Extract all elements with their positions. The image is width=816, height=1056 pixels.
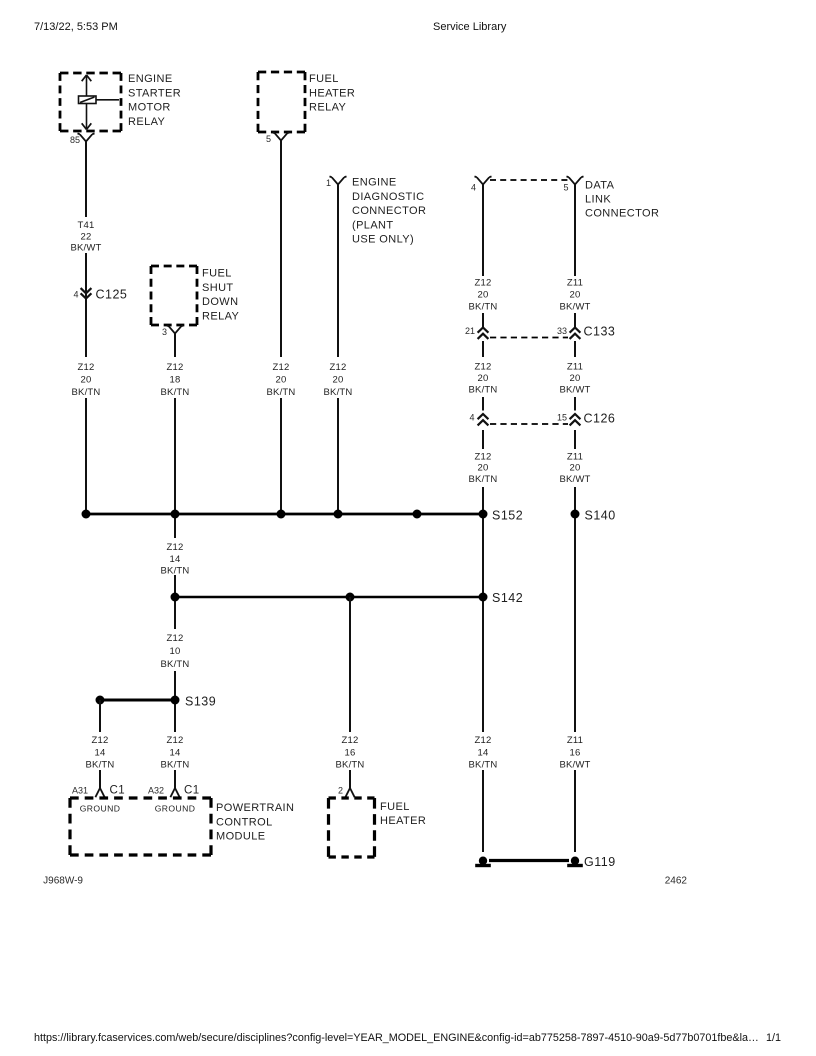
svg-text:2: 2 — [338, 786, 343, 796]
svg-text:BK/WT: BK/WT — [70, 243, 101, 254]
svg-text:Z12: Z12 — [167, 735, 184, 746]
svg-text:S139: S139 — [185, 695, 216, 709]
svg-text:https://library.fcaservices.co: https://library.fcaservices.com/web/secu… — [34, 1032, 759, 1044]
ground bus G119 — [489, 859, 569, 862]
svg-text:C1: C1 — [184, 785, 200, 797]
svg-text:SHUT: SHUT — [202, 282, 234, 294]
svg-text:CONNECTOR: CONNECTOR — [352, 205, 426, 217]
svg-text:S142: S142 — [492, 591, 523, 605]
connector terminal at pin 85 — [78, 133, 95, 141]
svg-text:Z12: Z12 — [475, 735, 492, 746]
wire label Z12 18 BK/TN (wire 2) — [161, 362, 190, 398]
svg-text:(PLANT: (PLANT — [352, 219, 394, 231]
svg-text:MOTOR: MOTOR — [128, 102, 171, 114]
svg-text:POWERTRAIN: POWERTRAIN — [216, 802, 294, 814]
svg-text:C133: C133 — [584, 325, 616, 339]
svg-text:Z12: Z12 — [92, 735, 109, 746]
svg-text:5: 5 — [563, 183, 568, 193]
svg-text:ENGINE: ENGINE — [128, 73, 173, 85]
svg-text:14: 14 — [170, 748, 181, 759]
svg-text:G119: G119 — [584, 855, 616, 869]
wire label Z12 14 BK/TN (to G119 left) — [469, 735, 498, 771]
svg-text:Service Library: Service Library — [433, 21, 507, 33]
svg-text:BK/TN: BK/TN — [469, 760, 498, 771]
svg-text:20: 20 — [333, 375, 344, 386]
svg-text:RELAY: RELAY — [202, 310, 240, 322]
junction dot wire3/S152 — [277, 510, 286, 519]
svg-text:18: 18 — [170, 375, 181, 386]
dashed link C133 — [490, 337, 568, 339]
svg-text:4: 4 — [469, 413, 474, 423]
wire label Z12 20 BK/TN (wire 4) — [324, 362, 353, 398]
wire Z12 from S139 to PCM A31 — [99, 700, 101, 788]
svg-text:BK/WT: BK/WT — [559, 474, 590, 485]
svg-text:Z11: Z11 — [567, 452, 583, 463]
svg-text:85: 85 — [70, 135, 80, 145]
svg-text:STARTER: STARTER — [128, 87, 181, 99]
svg-text:3: 3 — [162, 327, 167, 337]
svg-text:14: 14 — [170, 554, 181, 565]
svg-text:5: 5 — [266, 134, 271, 144]
svg-text:BK/TN: BK/TN — [469, 302, 498, 313]
relay box: fuel shut down relay — [151, 266, 197, 325]
svg-text:Z12: Z12 — [167, 362, 184, 373]
svg-text:ENGINE: ENGINE — [352, 177, 397, 189]
splice bus S142 — [175, 596, 483, 599]
wire label Z12 20 BK/TN (below C133 left) — [469, 362, 498, 396]
svg-text:C126: C126 — [584, 412, 616, 426]
svg-text:BK/TN: BK/TN — [469, 474, 498, 485]
wire label Z12 20 BK/TN (below C126 left) — [469, 452, 498, 486]
svg-text:HEATER: HEATER — [309, 87, 355, 99]
svg-text:14: 14 — [478, 748, 489, 759]
svg-text:Z12: Z12 — [342, 735, 359, 746]
svg-text:GROUND: GROUND — [80, 804, 121, 814]
svg-text:33: 33 — [557, 326, 567, 336]
svg-text:BK/TN: BK/TN — [161, 566, 190, 577]
junction dot S139 left — [96, 696, 105, 705]
label FUEL HEATER — [380, 801, 426, 827]
junction dot wire1/S152 — [82, 510, 91, 519]
svg-text:Z12: Z12 — [475, 278, 492, 289]
svg-text:20: 20 — [478, 373, 489, 384]
svg-text:Z11: Z11 — [567, 735, 583, 746]
svg-text:Z11: Z11 — [567, 278, 583, 289]
junction dot S142 left — [171, 593, 180, 602]
wire label Z11 16 BK/WT (to G119 right) — [559, 735, 590, 771]
wire T41 / Z12 from engine starter motor relay pin 85 to S152 — [85, 142, 87, 515]
svg-text:C1: C1 — [110, 785, 126, 797]
svg-text:BK/TN: BK/TN — [336, 760, 365, 771]
wire label Z12 20 BK/TN (DLC left) — [469, 278, 498, 313]
svg-text:BK/TN: BK/TN — [161, 659, 190, 670]
svg-text:BK/TN: BK/TN — [469, 385, 498, 396]
svg-text:S152: S152 — [492, 509, 523, 523]
label ENGINE STARTER MOTOR RELAY — [128, 73, 181, 128]
svg-text:Z12: Z12 — [475, 362, 492, 373]
relay box: engine starter motor relay — [60, 73, 121, 131]
svg-text:1: 1 — [326, 178, 331, 188]
wire label Z12 20 BK/TN (wire 3) — [267, 362, 296, 398]
svg-text:DATA: DATA — [585, 180, 615, 192]
svg-text:LINK: LINK — [585, 194, 611, 206]
wire label Z11 20 BK/WT (DLC right) — [559, 278, 590, 313]
wire Z12 from fuel shut down relay pin 3 to S152/S142/S139 and PCM A32 — [174, 334, 176, 789]
svg-text:A31: A31 — [72, 786, 88, 796]
svg-text:BK/WT: BK/WT — [559, 385, 590, 396]
component box: fuel heater — [329, 798, 375, 857]
connector terminal data link connector pin 4 — [475, 176, 492, 184]
terminal caret PCM A31 — [95, 788, 104, 797]
relay coil symbol (engine starter motor relay) — [79, 75, 120, 130]
svg-text:14: 14 — [95, 748, 106, 759]
wire label Z11 20 BK/WT (below C126 right) — [559, 452, 590, 486]
wire Z12 from fuel heater relay pin 5 to S152 — [280, 141, 282, 515]
terminal caret fuel heater pin 2 — [345, 788, 354, 797]
svg-text:Z12: Z12 — [167, 542, 184, 553]
label DATA LINK CONNECTOR — [585, 180, 659, 220]
svg-text:10: 10 — [170, 646, 181, 657]
junction dot wire4/S152 — [334, 510, 343, 519]
svg-text:FUEL: FUEL — [309, 73, 339, 85]
wire Z12 from S142 to fuel heater pin 2 — [349, 597, 351, 788]
svg-text:GROUND: GROUND — [155, 804, 196, 814]
svg-text:20: 20 — [478, 290, 489, 301]
in-line connector C126 right half — [570, 414, 581, 425]
svg-text:J968W-9: J968W-9 — [43, 876, 83, 887]
terminal caret PCM A32 — [170, 788, 179, 797]
splice bus S139 — [100, 699, 175, 702]
wire Z12 from DLC pin 4 through C133/C126 to S152, S142, G119 — [482, 185, 484, 853]
svg-text:Z11: Z11 — [567, 362, 583, 373]
wire label Z12 14 BK/TN (PCM A31) — [86, 735, 115, 771]
junction dot mid S152 — [413, 510, 422, 519]
label FUEL HEATER RELAY — [309, 73, 355, 114]
svg-text:BK/WT: BK/WT — [559, 760, 590, 771]
svg-text:BK/TN: BK/TN — [324, 387, 353, 398]
svg-text:DOWN: DOWN — [202, 296, 238, 308]
svg-text:4: 4 — [471, 183, 476, 193]
svg-text:USE ONLY): USE ONLY) — [352, 234, 414, 246]
label ENGINE DIAGNOSTIC CONNECTOR (PLANT USE ONLY) — [352, 177, 426, 246]
svg-text:CONNECTOR: CONNECTOR — [585, 208, 659, 220]
svg-text:20: 20 — [570, 290, 581, 301]
svg-text:16: 16 — [570, 748, 581, 759]
svg-text:A32: A32 — [148, 786, 164, 796]
svg-text:15: 15 — [557, 413, 567, 423]
svg-text:20: 20 — [570, 463, 581, 474]
in-line connector C125 — [81, 288, 92, 298]
connector terminal at fuel shut down relay pin 3 — [167, 325, 184, 333]
svg-text:BK/TN: BK/TN — [267, 387, 296, 398]
svg-text:20: 20 — [478, 463, 489, 474]
svg-text:BK/TN: BK/TN — [86, 760, 115, 771]
dashed link C126 — [490, 423, 568, 425]
svg-text:BK/WT: BK/WT — [559, 302, 590, 313]
svg-text:CONTROL: CONTROL — [216, 816, 273, 828]
svg-text:RELAY: RELAY — [309, 102, 347, 114]
wire label Z12 20 BK/TN (wire 1) — [72, 362, 101, 398]
svg-text:1/1: 1/1 — [766, 1032, 781, 1044]
svg-text:BK/TN: BK/TN — [161, 760, 190, 771]
svg-text:Z12: Z12 — [167, 633, 184, 644]
svg-text:S140: S140 — [585, 509, 616, 523]
wire label T41 22 BK/WT — [70, 220, 101, 254]
svg-text:C125: C125 — [96, 288, 128, 302]
junction dot S142 right — [479, 593, 488, 602]
svg-text:16: 16 — [345, 748, 356, 759]
svg-text:FUEL: FUEL — [202, 268, 232, 280]
svg-text:Z12: Z12 — [475, 452, 492, 463]
wire label Z12 16 BK/TN (fuel heater) — [336, 735, 365, 771]
svg-text:RELAY: RELAY — [128, 116, 166, 128]
junction dot S142 middle — [346, 593, 355, 602]
module box: powertrain control module — [70, 798, 211, 855]
wire label Z12 14 BK/TN (PCM A32) — [161, 735, 190, 771]
wire label Z12 14 BK/TN (S152 to S142) — [161, 542, 190, 577]
wire Z11 from DLC pin 5 through C133/C126 to S140 and G119 — [574, 185, 576, 853]
svg-text:BK/TN: BK/TN — [72, 387, 101, 398]
svg-text:20: 20 — [276, 375, 287, 386]
svg-text:22: 22 — [81, 232, 92, 243]
label FUEL SHUT DOWN RELAY — [202, 268, 240, 323]
svg-text:MODULE: MODULE — [216, 831, 265, 843]
wire label Z11 20 BK/WT (below C133 right) — [559, 362, 590, 396]
connector terminal data link connector pin 5 — [567, 176, 584, 184]
junction dot S152 right end — [479, 510, 488, 519]
svg-text:DIAGNOSTIC: DIAGNOSTIC — [352, 191, 424, 203]
wire Z12 from engine diagnostic connector pin 1 to S152 — [337, 185, 339, 515]
ground symbol G119 right — [567, 857, 583, 868]
junction dot wire2/S152 — [171, 510, 180, 519]
svg-text:20: 20 — [81, 375, 92, 386]
relay box: fuel heater relay — [258, 72, 305, 132]
splice S140 dot — [571, 510, 580, 519]
in-line connector C126 left half — [478, 414, 489, 425]
in-line connector C133 left half — [478, 328, 489, 339]
in-line connector C133 right half — [570, 328, 581, 339]
connector terminal engine diagnostic connector pin 1 — [330, 176, 347, 184]
splice bus S152 — [86, 513, 483, 516]
svg-text:Z12: Z12 — [330, 362, 347, 373]
svg-text:Z12: Z12 — [78, 362, 95, 373]
svg-text:7/13/22, 5:53 PM: 7/13/22, 5:53 PM — [34, 21, 118, 33]
svg-text:21: 21 — [465, 326, 475, 336]
svg-text:T41: T41 — [78, 220, 95, 231]
svg-text:20: 20 — [570, 373, 581, 384]
label POWERTRAIN CONTROL MODULE — [216, 802, 294, 843]
svg-text:BK/TN: BK/TN — [161, 387, 190, 398]
junction dot S139 right — [171, 696, 180, 705]
svg-text:Z12: Z12 — [273, 362, 290, 373]
svg-text:FUEL: FUEL — [380, 801, 410, 813]
svg-text:4: 4 — [73, 290, 78, 300]
ground symbol G119 left — [475, 857, 491, 868]
connector terminal at fuel heater relay pin 5 — [273, 132, 290, 140]
svg-text:HEATER: HEATER — [380, 815, 426, 827]
wire label Z12 10 BK/TN (S142 to S139) — [161, 633, 190, 670]
svg-text:2462: 2462 — [665, 876, 688, 887]
dashed link between DLC pins — [490, 179, 568, 181]
